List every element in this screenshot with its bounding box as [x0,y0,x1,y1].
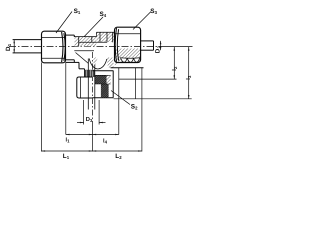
label S4 [100,11,107,18]
label L2 [115,153,122,160]
label l2 [171,66,178,71]
svg-text:l3: l3 [185,75,192,80]
right tube top line [141,40,154,42]
dimension row l1 l4 [66,134,119,136]
svg-text:L1: L1 [63,153,70,160]
thread block between stud and nut [85,70,95,77]
body bottom edge right of branch [111,67,144,69]
branch nut external half (left) [77,77,93,98]
right hex nut [115,27,141,62]
right hex left end chamfer arcs [115,28,116,62]
svg-text:S4: S4 [100,11,107,18]
axis extension line right [166,46,193,48]
leader S1 [56,12,72,34]
extension vertical x135.6 [135,68,137,99]
right hex facet line [115,33,140,35]
body top edge raised right part [97,31,115,33]
extension vertical x118.8 [118,68,120,135]
svg-text:D2: D2 [154,45,161,53]
main horizontal centerline [9,45,166,47]
svg-text:D3: D3 [86,117,93,123]
body internal bore lines [74,32,112,50]
svg-text:S3: S3 [150,8,157,15]
extension vertical left body x65.8 [65,62,67,134]
extension vertical D3 right [98,100,100,125]
svg-text:D1: D1 [5,43,12,51]
leader S4 [84,17,103,37]
neck between nut and body [66,34,75,36]
svg-text:L2: L2 [115,153,122,160]
dimension D3 outside arrows [77,122,106,124]
internal chamfer diagonal [76,53,89,64]
label D1 [5,43,12,51]
branch nut facet line [79,77,81,97]
label l1 [66,137,71,144]
left tube top line [13,39,42,41]
left coupling nut hex S1 [42,31,66,63]
dimension row L1 L2 [41,150,141,152]
body lower hatch right corner [107,58,114,68]
label l4 [103,138,108,145]
dimension D1 [13,40,15,53]
extension vertical right x141.9 [141,68,143,152]
extension vertical D3 left [83,100,85,125]
body top step [96,32,98,36]
label D2 [154,45,161,53]
extension vertical far left x41.4 [40,63,42,152]
extension line for l2 [119,78,177,80]
dimension l3 [188,47,190,99]
branch center extension to dim rows [92,126,94,152]
branch nut sectioned half (right) outline [112,71,114,98]
left tube bottom line [13,52,42,54]
hex facet lines left nut [42,37,65,39]
extension line for l3 [114,98,192,100]
svg-text:l1: l1 [66,137,71,144]
body section hatch upper-left [75,37,97,46]
label S2 [131,104,138,111]
body right lower section hatch under hex [115,49,140,62]
label D3 [86,117,93,123]
label l3 [185,75,192,80]
branch nut section dark hatch [95,75,109,97]
label S3 [150,8,157,15]
right tube bottom line [141,49,154,51]
branch bore curve [89,59,107,70]
branch stud step left [78,62,80,68]
thread hammock arcs in section [121,58,140,63]
right tube end [153,41,155,50]
svg-text:S1: S1 [74,8,81,15]
dimension l2 [174,47,176,79]
body bottom-left edge [66,61,80,63]
leader S2 [111,91,130,105]
branch vertical centerline [92,52,94,126]
label L1 [63,153,70,160]
left nut end chamfer arcs [62,32,63,62]
svg-text:l4: l4 [103,138,108,145]
branch tube walls in section [87,59,89,110]
leader S3 [133,12,151,30]
body section hatch upper-right [97,33,115,42]
body top edge left part [74,36,96,38]
label S1 [74,8,81,15]
svg-text:l2: l2 [171,66,178,71]
dimension D2 [160,41,162,50]
body lower hatch left corner [94,58,99,68]
svg-text:S2: S2 [131,104,138,111]
